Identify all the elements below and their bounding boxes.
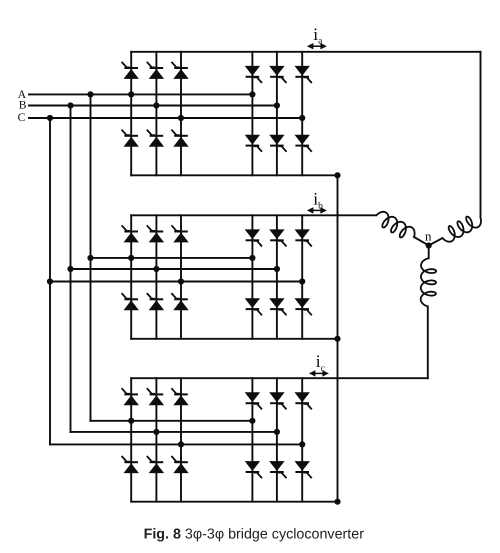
- thyristor N34 (bottom, conducts down): [245, 461, 262, 478]
- node: junction column 5 / feed, bridge 2: [274, 266, 280, 272]
- thyristor P31 (top, conducts up): [122, 388, 139, 405]
- thyristor P33 (top, conducts up): [171, 388, 188, 405]
- thyristor P36 (bottom, conducts up): [171, 456, 188, 473]
- node: junction column 4 / feed, bridge 1: [249, 91, 255, 97]
- arrow: direction of i_c: [309, 370, 329, 376]
- wire: bridge 2 bottom rail: [131, 338, 337, 340]
- wire: phase feed 3 into bridge 2: [50, 281, 302, 283]
- node: bus tap for feed 3, bridge 2: [47, 278, 53, 284]
- inductor: load winding b (left): [376, 212, 414, 238]
- node: junction column 4 / feed, bridge 3: [249, 418, 255, 424]
- thyristor P14 (bottom, conducts up): [122, 130, 139, 147]
- node: junction column 3 / feed, bridge 1: [178, 115, 184, 121]
- node: junction column 6 / feed, bridge 2: [299, 278, 305, 284]
- wire: bridge 2 leg column 4: [251, 215, 253, 338]
- wire: winding b to neutral n: [414, 237, 429, 246]
- svg-text:ic: ic: [316, 351, 325, 374]
- thyristor P26 (bottom, conducts up): [171, 293, 188, 310]
- thyristor P13 (top, conducts up): [171, 62, 188, 79]
- thyristor P35 (bottom, conducts up): [147, 456, 164, 473]
- svg-text:C: C: [18, 112, 26, 124]
- svg-text:ia: ia: [313, 24, 323, 47]
- wire: right vertical from bridge 1 top rail down to winding a: [480, 52, 482, 218]
- node: bus tap for feed 2, bridge 1: [67, 102, 73, 108]
- thyristor P23 (top, conducts up): [171, 225, 188, 242]
- wire: bridge 1 top rail / positive bus: [131, 51, 480, 53]
- node: junction column 2 / feed, bridge 1: [153, 102, 159, 108]
- wire: winding a to neutral n: [429, 238, 443, 246]
- inductor: load winding c (vertical): [421, 258, 437, 306]
- wire: bridge 1 leg column 4: [251, 52, 253, 176]
- wire: bridge 2 leg column 2: [155, 215, 157, 338]
- thyristor N22 (top, conducts down): [269, 229, 286, 246]
- wire: bridge 3 leg column 5: [276, 378, 278, 502]
- thyristor N35 (bottom, conducts down): [269, 461, 286, 478]
- node: junction column 2 / feed, bridge 3: [153, 429, 159, 435]
- wire: phase feed 2 into bridge 2: [71, 268, 277, 270]
- thyristor N24 (bottom, conducts down): [245, 298, 262, 315]
- node: bus tap for feed 2, bridge 2: [67, 266, 73, 272]
- wire: phase feed 2 into bridge 1: [29, 105, 277, 107]
- wire: phase C vertical bus: [49, 118, 51, 444]
- thyristor N33 (top, conducts down): [295, 392, 312, 409]
- thyristor N11 (top, conducts down): [245, 66, 262, 83]
- wire: bridge 2 leg column 6: [301, 215, 303, 338]
- wire: phase feed 3 into bridge 1: [29, 117, 302, 119]
- wire: bridge 3 leg column 1: [130, 378, 132, 502]
- wire: bridge 3 leg column 6: [301, 378, 303, 502]
- node: junction column 3 / feed, bridge 3: [178, 441, 184, 447]
- wire: phase feed 1 into bridge 3: [91, 420, 253, 422]
- thyristor P34 (bottom, conducts up): [122, 456, 139, 473]
- thyristor N15 (bottom, conducts down): [269, 135, 286, 152]
- svg-text:B: B: [19, 99, 27, 111]
- wire: bridge 3 leg column 2: [155, 378, 157, 502]
- wire: bridge 3 leg column 3: [180, 378, 182, 502]
- wire: bridge 2 top rail / positive bus: [131, 214, 376, 216]
- wire: phase feed 1 into bridge 1: [29, 93, 252, 95]
- thyristor N36 (bottom, conducts down): [295, 461, 312, 478]
- wire: bridge 2 leg column 5: [276, 215, 278, 338]
- inductor: load winding a (right): [443, 217, 482, 242]
- wire: phase B vertical bus: [70, 106, 72, 432]
- node: bridge 3 bottom rail to common negative bus: [334, 499, 340, 505]
- node: bridge 1 bottom rail to common negative bus: [334, 172, 340, 178]
- wire: neutral n down to winding c: [428, 246, 430, 259]
- wire: phase A vertical bus: [90, 94, 92, 420]
- node: junction column 3 / feed, bridge 2: [178, 278, 184, 284]
- thyristor P32 (top, conducts up): [147, 388, 164, 405]
- node: junction column 1 / feed, bridge 3: [128, 418, 134, 424]
- node: junction column 1 / feed, bridge 2: [128, 255, 134, 261]
- thyristor P12 (top, conducts up): [147, 62, 164, 79]
- thyristor P24 (bottom, conducts up): [122, 293, 139, 310]
- thyristor N12 (top, conducts down): [269, 66, 286, 83]
- node: bus tap for feed 1, bridge 2: [87, 255, 93, 261]
- arrow: direction of i_b: [307, 207, 327, 213]
- svg-text:n: n: [425, 228, 432, 243]
- wire: bridge 1 leg column 3: [180, 52, 182, 176]
- wire: bridge 2 leg column 1: [130, 215, 132, 338]
- wire: phase feed 1 into bridge 2: [91, 257, 253, 259]
- wire: bridge 2 leg column 3: [180, 215, 182, 338]
- thyristor N26 (bottom, conducts down): [295, 298, 312, 315]
- node n (load neutral): [426, 242, 432, 248]
- wire: bridge 1 leg column 5: [276, 52, 278, 176]
- node: junction column 6 / feed, bridge 1: [299, 115, 305, 121]
- wire: phase feed 2 into bridge 3: [71, 431, 277, 433]
- node: junction column 4 / feed, bridge 2: [249, 255, 255, 261]
- wire: bridge 3 leg column 4: [251, 378, 253, 502]
- wire: bridge 1 leg column 2: [155, 52, 157, 176]
- node: junction column 1 / feed, bridge 1: [128, 91, 134, 97]
- thyristor N21 (top, conducts down): [245, 229, 262, 246]
- thyristor N23 (top, conducts down): [295, 229, 312, 246]
- thyristor P16 (bottom, conducts up): [171, 130, 188, 147]
- wire: bridge 1 bottom rail: [131, 174, 337, 176]
- node: junction column 5 / feed, bridge 3: [274, 429, 280, 435]
- wire: winding c down to bridge 3 top rail: [427, 307, 429, 379]
- thyristor P21 (top, conducts up): [122, 225, 139, 242]
- thyristor N25 (bottom, conducts down): [269, 298, 286, 315]
- wire: bridge 3 top rail / positive bus: [131, 377, 428, 379]
- node: junction column 6 / feed, bridge 3: [299, 441, 305, 447]
- thyristor N16 (bottom, conducts down): [295, 135, 312, 152]
- wire: bridge 3 bottom rail: [131, 501, 337, 503]
- thyristor P22 (top, conducts up): [147, 225, 164, 242]
- node: bus tap for feed 3, bridge 1: [47, 115, 53, 121]
- thyristor N32 (top, conducts down): [269, 392, 286, 409]
- thyristor P15 (bottom, conducts up): [147, 130, 164, 147]
- wire: phase feed 3 into bridge 3: [50, 443, 302, 445]
- wire: common bus joining bridge bottom rails: [337, 175, 339, 501]
- node: bus tap for feed 1, bridge 1: [87, 91, 93, 97]
- thyristor P25 (bottom, conducts up): [147, 293, 164, 310]
- thyristor P11 (top, conducts up): [122, 62, 139, 79]
- arrow: direction of i_a: [307, 43, 327, 49]
- thyristor N14 (bottom, conducts down): [245, 135, 262, 152]
- svg-text:Fig. 8 3φ-3φ bridge cycloconve: Fig. 8 3φ-3φ bridge cycloconverter: [144, 527, 365, 543]
- node: junction column 5 / feed, bridge 1: [274, 102, 280, 108]
- wire: bridge 1 leg column 1: [130, 52, 132, 176]
- wire: bridge 1 leg column 6: [301, 52, 303, 176]
- thyristor N31 (top, conducts down): [245, 392, 262, 409]
- node: bridge 2 bottom rail to common negative bus: [334, 336, 340, 342]
- thyristor N13 (top, conducts down): [295, 66, 312, 83]
- node: junction column 2 / feed, bridge 2: [153, 266, 159, 272]
